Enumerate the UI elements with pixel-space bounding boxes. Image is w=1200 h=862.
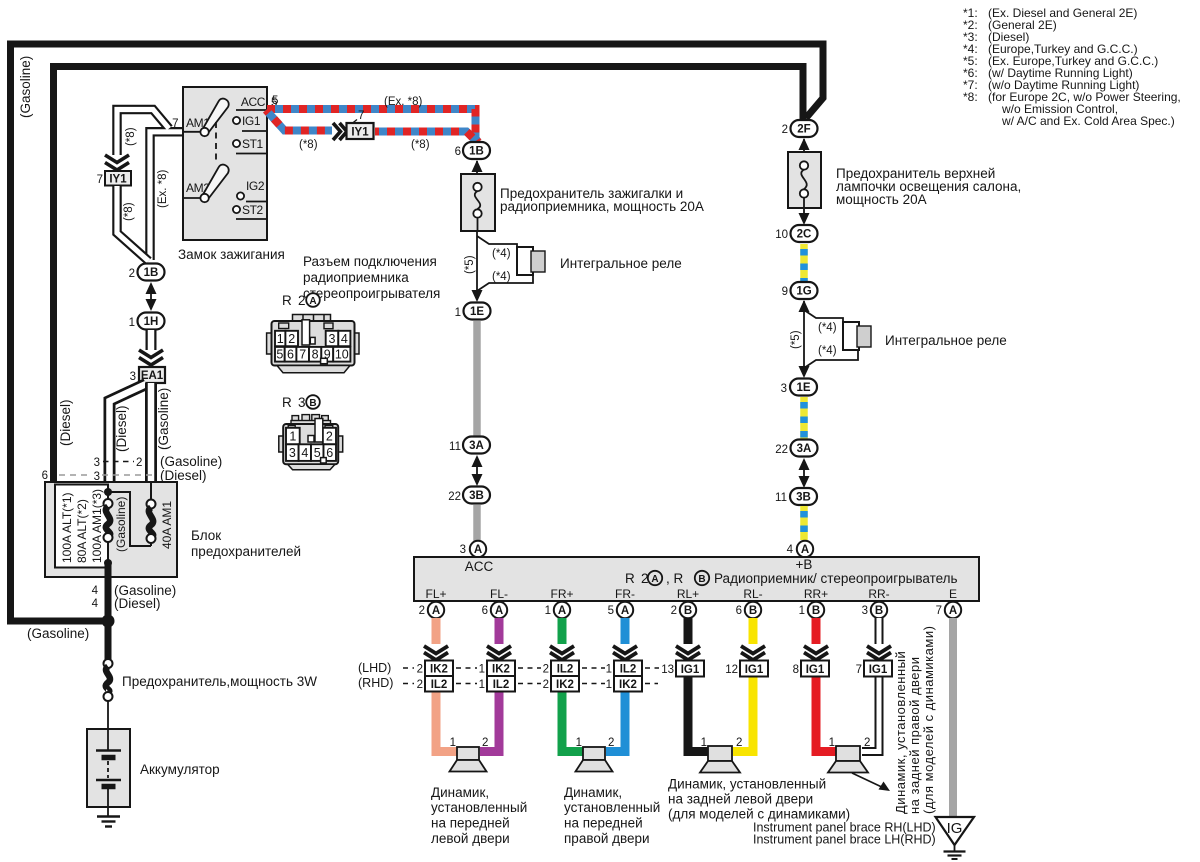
svg-text:E: E	[949, 587, 957, 601]
node 1B (middle)	[463, 142, 490, 159]
inner white panel	[55, 485, 108, 568]
svg-text:2: 2	[417, 664, 423, 676]
wire 3B to ACC (gray)	[473, 505, 481, 541]
switch lever AM1	[203, 99, 229, 133]
fuse F2 (40A AM1)	[150, 482, 152, 500]
svg-text:R: R	[282, 293, 292, 308]
svg-text:1: 1	[701, 737, 707, 749]
link fuse to 2C with arrow	[803, 208, 805, 223]
svg-text:RL+: RL+	[677, 587, 699, 601]
svg-text:100A AM1(*3): 100A AM1(*3)	[90, 489, 104, 563]
svg-text:B: B	[749, 605, 757, 617]
svg-text:2: 2	[608, 737, 614, 749]
link 1B to fuse with arrow	[476, 161, 478, 174]
svg-text:5: 5	[608, 605, 614, 617]
svg-text:A: A	[432, 605, 440, 617]
svg-text:(Gasoline): (Gasoline)	[156, 388, 171, 450]
wire 2C to 1G (yellow/blue)	[800, 244, 808, 281]
fuse cigarette-lighter/radio 20A	[461, 174, 495, 231]
wire FR+ (green)	[558, 618, 567, 644]
junction box IG1 RR-	[864, 661, 892, 677]
svg-text:, R: , R	[666, 571, 684, 586]
wire FL+ (salmon)	[432, 618, 441, 644]
integral relay box (middle)	[517, 247, 533, 275]
svg-text:Замок зажигания: Замок зажигания	[178, 247, 285, 262]
svg-text:B: B	[309, 398, 316, 409]
svg-text:IL2: IL2	[431, 679, 448, 691]
svg-text:IL2: IL2	[557, 664, 574, 676]
svg-text:1: 1	[545, 605, 551, 617]
svg-text:2: 2	[782, 124, 788, 136]
svg-text:(*4): (*4)	[492, 271, 511, 283]
chevron on wire into IY1	[105, 155, 129, 170]
svg-text:4: 4	[301, 446, 308, 460]
node 3A (middle)	[463, 437, 490, 454]
svg-text:+B: +B	[796, 557, 813, 572]
svg-text:6: 6	[455, 146, 461, 158]
svg-text:3: 3	[862, 605, 868, 617]
svg-text:3: 3	[298, 395, 306, 410]
node 3B (middle)	[463, 487, 490, 504]
svg-text:IG: IG	[947, 820, 963, 837]
svg-text:A: A	[558, 605, 566, 617]
svg-text:3B: 3B	[469, 490, 484, 502]
junction box EA1	[139, 367, 165, 383]
svg-text:2F: 2F	[797, 124, 810, 136]
svg-text:Динамик,: Динамик,	[431, 785, 489, 800]
svg-text:w/ A/C and Ex. Cold Area Spec: w/ A/C and Ex. Cold Area Spec.)	[1001, 114, 1175, 128]
svg-text:на передней: на передней	[431, 816, 510, 831]
svg-text:2: 2	[419, 605, 425, 617]
link fuse to 1E	[476, 231, 478, 300]
svg-text:(*5): (*5)	[790, 330, 802, 349]
svg-text:2: 2	[736, 737, 742, 749]
speaker front-left	[457, 747, 479, 760]
svg-text:на задней левой двери: на задней левой двери	[668, 792, 813, 807]
svg-text:(Gasoline): (Gasoline)	[27, 626, 89, 641]
svg-text:Instrument panel brace LH(RHD): Instrument panel brace LH(RHD)	[753, 833, 936, 847]
terminal ST1	[233, 140, 240, 147]
wire ACC to 1B upper (red/blue)	[267, 109, 478, 142]
svg-text:RR+: RR+	[804, 587, 828, 601]
svg-text:(Gasoline): (Gasoline)	[160, 454, 222, 469]
wire FR- (blue)	[621, 618, 630, 644]
speaker front-right	[583, 747, 605, 760]
svg-text:левой двери: левой двери	[431, 831, 510, 846]
svg-text:установленный: установленный	[564, 800, 660, 815]
wire RL- (yellow)	[749, 618, 758, 644]
svg-text:1E: 1E	[796, 382, 810, 394]
connector view R2A	[267, 315, 359, 373]
svg-text:IG1: IG1	[745, 664, 764, 676]
svg-text:IG1: IG1	[681, 664, 700, 676]
svg-text:80A ALT(*2): 80A ALT(*2)	[75, 499, 89, 563]
node 1H	[138, 313, 165, 330]
svg-text:B: B	[812, 605, 820, 617]
node A (+B pin)	[797, 541, 813, 557]
wire AM1 to IY1 (hollow)	[117, 110, 169, 156]
note list *1..*8	[963, 6, 1181, 128]
svg-text:2: 2	[288, 332, 295, 346]
dashed link line	[215, 122, 217, 164]
svg-text:радиоприемника: радиоприемника	[303, 270, 409, 285]
svg-text:6: 6	[482, 605, 488, 617]
svg-text:(*4): (*4)	[818, 322, 837, 334]
svg-text:7: 7	[97, 174, 103, 186]
svg-text:(для моделей с динамиками): (для моделей с динамиками)	[668, 807, 850, 822]
link 3A to 3B with arrows	[803, 460, 805, 486]
svg-text:IK2: IK2	[430, 664, 448, 676]
svg-text:EA1: EA1	[141, 370, 164, 382]
svg-text:4: 4	[787, 544, 794, 556]
ground IG	[936, 817, 975, 845]
svg-text:(Diesel): (Diesel)	[58, 399, 73, 446]
svg-text:13: 13	[661, 664, 674, 676]
terminal IG1	[233, 117, 240, 124]
junction boxes IL2/IK2 FR+	[551, 661, 579, 677]
svg-text:FR-: FR-	[615, 587, 635, 601]
svg-text:3: 3	[329, 332, 336, 346]
svg-text:9: 9	[782, 286, 788, 298]
ground (battery)	[107, 807, 109, 816]
node 2F	[791, 120, 818, 137]
svg-text:22: 22	[775, 444, 788, 456]
wire 1H to EA1 (hollow)	[146, 330, 157, 350]
node 1B (left)	[138, 264, 165, 281]
bracket to integral relay (middle)	[477, 236, 517, 248]
node 3B (right)	[790, 488, 817, 505]
svg-text:6: 6	[326, 446, 333, 460]
svg-text:мощность 20А: мощность 20А	[836, 192, 927, 207]
svg-text:ACC: ACC	[241, 95, 266, 109]
node 2C	[791, 225, 818, 242]
svg-text:7: 7	[856, 664, 862, 676]
svg-text:3: 3	[130, 371, 136, 383]
svg-text:Блок: Блок	[191, 528, 221, 543]
svg-text:5: 5	[314, 446, 321, 460]
svg-text:(Ex. *8): (Ex. *8)	[157, 169, 169, 208]
junction boxes IK2/IL2 FL-	[487, 661, 515, 677]
wire AM2 feed thick inner loop	[54, 67, 804, 483]
wire 1E to 3A (yellow/blue)	[800, 397, 808, 439]
svg-text:B: B	[875, 605, 883, 617]
svg-text:A: A	[495, 605, 503, 617]
svg-text:6: 6	[736, 605, 742, 617]
svg-text:предохранителей: предохранителей	[191, 544, 301, 559]
svg-text:3: 3	[94, 457, 100, 469]
svg-text:на задней правой двери: на задней правой двери	[907, 656, 922, 814]
svg-text:Интегральное реле: Интегральное реле	[560, 256, 682, 271]
fuse block (Блок предохранителей)	[45, 482, 177, 577]
svg-text:Динамик, установленный: Динамик, установленный	[668, 777, 826, 792]
junction boxes IK2/IL2 FL+	[425, 661, 453, 677]
wire junction to fuse 3W (thick)	[105, 621, 112, 659]
svg-text:1: 1	[799, 605, 805, 617]
wire IY1 to 1B (hollow)	[117, 186, 149, 261]
svg-text:8: 8	[793, 664, 799, 676]
svg-text:R: R	[282, 395, 292, 410]
node A (ACC pin)	[470, 541, 486, 557]
svg-text:(*5): (*5)	[464, 255, 476, 274]
svg-text:12: 12	[725, 664, 738, 676]
svg-text:3: 3	[781, 383, 787, 395]
svg-text:IG1: IG1	[806, 664, 825, 676]
svg-text:A: A	[651, 574, 658, 585]
node 1E (right)	[790, 379, 817, 396]
svg-text:1: 1	[455, 307, 461, 319]
svg-text:Разъем подключения: Разъем подключения	[303, 254, 437, 269]
battery box	[87, 729, 130, 807]
svg-text:7: 7	[936, 605, 942, 617]
wire RR- (white hollow)	[875, 618, 884, 644]
svg-text:(*4): (*4)	[818, 345, 837, 357]
svg-text:100A ALT(*1): 100A ALT(*1)	[60, 493, 74, 564]
node junction top	[104, 488, 112, 496]
svg-text:4: 4	[92, 598, 99, 610]
svg-text:A: A	[474, 544, 482, 556]
svg-text:Интегральное реле: Интегральное реле	[885, 333, 1007, 348]
svg-text:IG1: IG1	[242, 114, 261, 128]
wire RL+ (black)	[684, 618, 693, 644]
svg-text:Аккумулятор: Аккумулятор	[140, 762, 220, 777]
svg-text:Динамик,: Динамик,	[564, 785, 622, 800]
svg-text:2: 2	[864, 737, 870, 749]
svg-text:на передней: на передней	[564, 816, 643, 831]
dashed pin links row2	[403, 683, 658, 685]
bracket to integral relay (right)	[804, 310, 843, 322]
svg-text:A: A	[309, 296, 316, 307]
svg-text:*8:: *8:	[963, 90, 978, 104]
svg-text:1B: 1B	[469, 146, 484, 158]
battery symbol	[107, 729, 109, 750]
svg-text:2: 2	[298, 293, 306, 308]
dashed pin links row1	[403, 667, 659, 669]
junction box IG1 RL+	[676, 661, 704, 677]
svg-text:A: A	[621, 605, 629, 617]
terminal IG2	[237, 192, 244, 199]
svg-text:Радиоприемник/ стереопроигрыва: Радиоприемник/ стереопроигрыватель	[714, 571, 958, 586]
svg-text:1: 1	[277, 332, 284, 346]
svg-text:4: 4	[92, 585, 99, 597]
svg-text:IG2: IG2	[246, 179, 265, 193]
chevron into IY1 (right)	[333, 123, 347, 140]
svg-text:стереопроигрывателя: стереопроигрывателя	[303, 286, 440, 301]
svg-text:1: 1	[129, 317, 135, 329]
svg-text:3B: 3B	[796, 492, 811, 504]
link 3A to 3B with arrows	[476, 457, 478, 484]
svg-text:установленный: установленный	[431, 800, 527, 815]
svg-text:1: 1	[829, 737, 835, 749]
wire 1E to 3A (gray)	[473, 321, 481, 436]
svg-text:(Gasoline): (Gasoline)	[18, 56, 33, 118]
link 1G to 1E with arrows	[803, 301, 805, 376]
fuse dome light 20A	[788, 152, 821, 208]
svg-text:7: 7	[358, 110, 364, 122]
node 1G	[791, 282, 818, 299]
wire EA1 to fuse box right (Gasoline, hollow)	[145, 383, 157, 482]
junction box IG1 RL-	[740, 661, 768, 677]
link 2F to fuse with arrow	[803, 139, 805, 152]
svg-text:3A: 3A	[469, 440, 484, 452]
svg-text:1H: 1H	[144, 316, 159, 328]
svg-text:(Diesel): (Diesel)	[160, 468, 207, 483]
arrow to rear-right speaker label	[852, 773, 886, 789]
node 1E (middle)	[464, 303, 491, 320]
svg-text:1: 1	[450, 737, 456, 749]
svg-text:IK2: IK2	[556, 679, 574, 691]
svg-text:IY1: IY1	[351, 127, 369, 139]
wire F1 top to F2 branch	[108, 492, 151, 546]
svg-text:1: 1	[606, 664, 612, 676]
svg-text:ST1: ST1	[242, 137, 264, 151]
svg-text:RL-: RL-	[743, 587, 762, 601]
svg-text:1: 1	[479, 679, 485, 691]
fuse F1 (ALT)	[104, 499, 113, 508]
wire E (gray)	[949, 618, 957, 817]
svg-text:2: 2	[671, 605, 677, 617]
fuse 3W	[104, 659, 113, 668]
svg-text:IY1: IY1	[109, 174, 127, 186]
svg-text:(Ex. *8): (Ex. *8)	[384, 96, 423, 108]
svg-text:(*4): (*4)	[492, 248, 511, 260]
svg-text:2: 2	[482, 737, 488, 749]
svg-text:2: 2	[129, 268, 135, 280]
svg-text:FR+: FR+	[550, 587, 573, 601]
svg-text:B: B	[684, 605, 692, 617]
wire FL- (purple)	[495, 618, 504, 644]
junction box IY1 (left)	[105, 171, 131, 186]
svg-text:6: 6	[42, 470, 48, 482]
svg-text:1G: 1G	[796, 286, 811, 298]
wire IY1 to 1B (red/blue)	[375, 132, 476, 142]
svg-text:(*8): (*8)	[411, 139, 430, 151]
svg-text:1: 1	[576, 737, 582, 749]
speaker rear-right	[836, 746, 860, 761]
svg-text:8: 8	[312, 348, 319, 362]
svg-text:11: 11	[449, 441, 461, 453]
svg-text:11: 11	[775, 492, 787, 504]
svg-text:40A AM1: 40A AM1	[160, 501, 174, 549]
svg-text:радиоприемника, мощность 20А: радиоприемника, мощность 20А	[500, 199, 704, 214]
svg-text:Динамик, установленный: Динамик, установленный	[893, 651, 908, 814]
svg-text:7: 7	[172, 118, 178, 130]
junction box IG1 RR+	[801, 661, 829, 677]
svg-text:5: 5	[272, 95, 278, 107]
svg-text:ST2: ST2	[242, 203, 264, 217]
svg-text:(Diesel): (Diesel)	[114, 596, 161, 611]
svg-text:2: 2	[136, 457, 142, 469]
svg-text:2: 2	[543, 679, 549, 691]
link 1B to 1H with arrows	[150, 284, 152, 309]
ignition switch box	[183, 87, 267, 240]
svg-text:1E: 1E	[470, 306, 484, 318]
svg-text:2: 2	[543, 664, 549, 676]
terminal pin circles	[419, 602, 962, 618]
chevrons on speaker wires	[424, 646, 891, 660]
svg-text:(*8): (*8)	[299, 139, 318, 151]
terminal labels FL+ FL- FR+ FR- RL+ RL- RR+ RR- E	[425, 587, 957, 601]
svg-text:10: 10	[775, 229, 788, 241]
svg-text:2: 2	[417, 679, 423, 691]
svg-text:(*8): (*8)	[125, 127, 137, 146]
terminal ST2	[233, 206, 240, 213]
svg-text:IG1: IG1	[869, 664, 888, 676]
svg-text:3: 3	[460, 544, 466, 556]
wire fuse block output (thick)	[105, 563, 112, 621]
svg-text:FL+: FL+	[425, 587, 446, 601]
svg-text:R: R	[625, 571, 635, 586]
wire ACC to IY1 lower (red/blue)	[266, 110, 332, 131]
svg-text:1: 1	[606, 679, 612, 691]
svg-text:22: 22	[448, 491, 461, 503]
svg-text:1: 1	[289, 430, 296, 444]
switch lever AM2	[203, 165, 229, 199]
node junction main	[102, 615, 115, 628]
integral relay box (right)	[843, 322, 859, 350]
svg-text:3: 3	[289, 446, 296, 460]
svg-text:ACC: ACC	[465, 559, 494, 574]
svg-text:IL2: IL2	[620, 664, 637, 676]
svg-text:5: 5	[276, 348, 283, 362]
wire RR+ (red)	[812, 618, 821, 644]
svg-text:10: 10	[335, 348, 349, 362]
svg-text:IL2: IL2	[493, 679, 510, 691]
svg-text:9: 9	[324, 348, 331, 362]
svg-text:FL-: FL-	[490, 587, 508, 601]
svg-text:A: A	[801, 544, 809, 556]
svg-text:правой двери: правой двери	[564, 831, 650, 846]
junction box IY1 (middle)	[347, 123, 374, 139]
svg-text:B: B	[698, 574, 705, 585]
svg-text:7: 7	[299, 348, 306, 362]
svg-text:6: 6	[287, 348, 294, 362]
radio/stereo unit box	[414, 557, 979, 601]
svg-text:IK2: IK2	[492, 664, 510, 676]
svg-text:Предохранитель,мощность 3W: Предохранитель,мощность 3W	[122, 674, 317, 689]
wire battery-main (Gasoline) thick outer loop	[11, 44, 824, 621]
svg-text:(*8): (*8)	[123, 202, 135, 221]
chevron into EA1	[139, 350, 163, 365]
svg-text:(для моделей с динамиками): (для моделей с динамиками)	[921, 626, 936, 814]
svg-text:(RHD): (RHD)	[358, 676, 393, 690]
svg-text:RR-: RR-	[868, 587, 889, 601]
svg-text:2: 2	[326, 430, 333, 444]
node junction bottom	[104, 559, 112, 567]
wire 3B to +B (yellow/blue)	[800, 506, 808, 540]
junction boxes IL2/IK2 FR-	[614, 661, 642, 677]
speaker rear-left	[708, 746, 732, 761]
svg-text:(Diesel): (Diesel)	[114, 405, 129, 452]
svg-text:(LHD): (LHD)	[358, 661, 391, 675]
svg-text:2C: 2C	[797, 229, 812, 241]
node 3A (right)	[791, 440, 818, 457]
svg-text:4: 4	[341, 332, 348, 346]
svg-text:(Gasoline): (Gasoline)	[114, 497, 128, 552]
svg-text:1B: 1B	[144, 267, 159, 279]
wire fuse to battery	[107, 701, 109, 729]
svg-text:IK2: IK2	[619, 679, 637, 691]
svg-text:3A: 3A	[797, 443, 812, 455]
wire EA1 to fuse box left (Diesel, hollow)	[110, 384, 147, 482]
svg-text:1: 1	[479, 664, 485, 676]
svg-text:A: A	[949, 605, 957, 617]
connector view R3B	[279, 415, 343, 470]
